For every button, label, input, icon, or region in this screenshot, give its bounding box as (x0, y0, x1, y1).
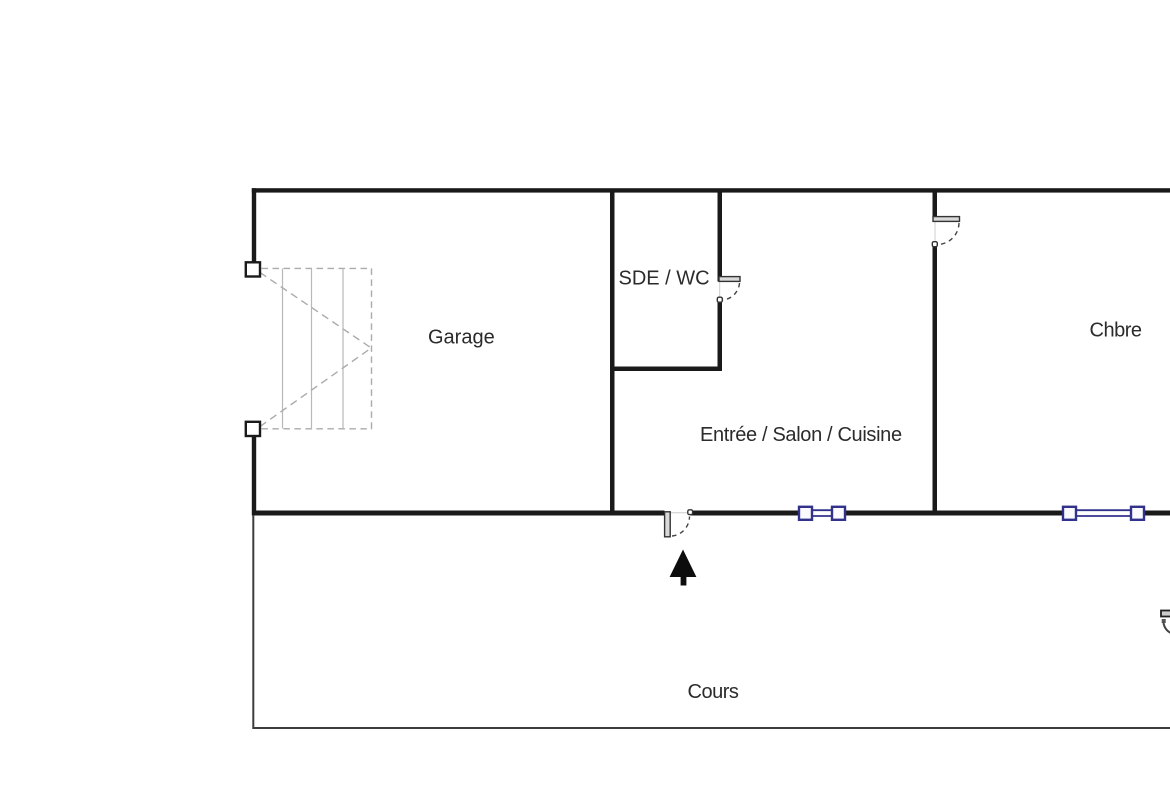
wall SDE bottom horizontal (610, 367, 722, 372)
garage door swing diagonal upper (260, 273, 371, 348)
wall Chbre left upper segment (933, 192, 938, 217)
wall SDE right lower segment (718, 301, 723, 371)
wall interior garage/SDE vertical (610, 192, 615, 511)
door Chbre gap line (934, 222, 936, 244)
svg-text:Garage: Garage (428, 327, 495, 349)
garage door panel line 2 (311, 269, 313, 429)
wall bottom segment 1 (left of entry door) (252, 511, 665, 516)
window W2 glazing double line (1076, 510, 1131, 516)
wall top (exterior) (252, 188, 1170, 192)
svg-text:SDE / WC: SDE / WC (619, 268, 710, 290)
door entry wall end marker (688, 510, 693, 515)
door SDE swing arc (723, 283, 740, 300)
svg-text:Entrée / Salon / Cuisine: Entrée / Salon / Cuisine (700, 424, 902, 446)
entry arrow (670, 550, 697, 586)
door entry leaf (665, 512, 671, 537)
wall bottom segment 4 (right of window W2) (1145, 511, 1170, 516)
wall bottom segment 2 (entry door to window W1) (691, 511, 799, 516)
door Chbre wall end marker (932, 242, 937, 247)
cours gate swing arc (1164, 623, 1170, 634)
window W1 left square (799, 507, 812, 520)
svg-text:Chbre: Chbre (1090, 320, 1142, 342)
garage door panel line 3 (342, 269, 344, 429)
svg-text:Cours: Cours (688, 681, 739, 703)
door entry gap line (671, 512, 690, 514)
wall SDE right upper segment (718, 192, 723, 282)
door SDE leaf (719, 277, 740, 282)
garage door dashed panel (top, right, bottom edges) (262, 268, 372, 428)
window W1 glazing double line (812, 510, 832, 516)
door Chbre swing arc (939, 223, 960, 245)
window W1 right square (832, 507, 845, 520)
garage door swing diagonal lower (260, 349, 371, 427)
garage door post square B (246, 422, 260, 436)
door SDE wall end marker (717, 297, 722, 302)
wall left upper segment (252, 188, 256, 266)
cours boundary (253, 515, 1170, 728)
cours gate hinge dot (1162, 619, 1166, 623)
cours gate door leaf (cut off at right edge) (1161, 611, 1170, 617)
door entry swing arc (672, 517, 690, 537)
garage door panel line 1 (282, 269, 284, 429)
window W2 right square (1131, 507, 1144, 520)
door SDE gap line (719, 282, 721, 300)
wall Chbre left lower segment (933, 244, 938, 511)
door Chbre leaf (933, 217, 960, 222)
window W2 left square (1063, 507, 1076, 520)
wall left lower segment (252, 437, 256, 516)
wall bottom segment 3 (window W1 to window W2) (846, 511, 1063, 516)
garage door post square A (246, 262, 260, 276)
